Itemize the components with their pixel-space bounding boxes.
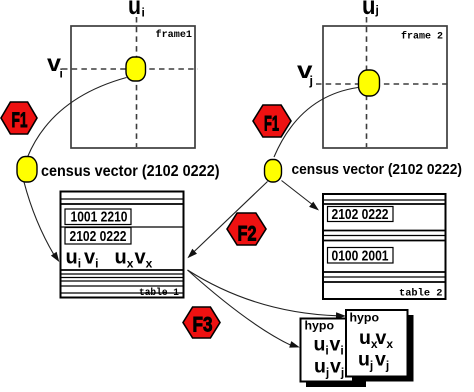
table 2 row line y=282 <box>324 281 446 283</box>
table 2 row line y=272 <box>324 271 446 273</box>
hexagon F3 <box>183 307 220 338</box>
svg-text:frame 2: frame 2 <box>401 31 443 43</box>
svg-text:u: u <box>128 0 141 20</box>
table 1 row line y=286 <box>61 285 183 287</box>
hypothesis box right <box>346 310 408 377</box>
hypothesis box right shadow <box>352 315 414 382</box>
hexagon F1 right <box>253 105 291 137</box>
curve frame2 pixel to census vector (F1 map) <box>274 88 358 158</box>
svg-text:uivi: uivi <box>314 334 344 358</box>
yellow pixel blob frame 1 <box>126 57 146 81</box>
table 2 row line y=204 <box>324 203 446 205</box>
table 2 row line y=200 <box>324 199 446 201</box>
svg-text:hypo: hypo <box>350 311 380 325</box>
frame 2 horizontal dashed line <box>316 83 450 85</box>
svg-text:u: u <box>362 0 376 20</box>
table 2 row line y=235.5 <box>324 235 446 237</box>
arrow census vector left to table 1 <box>24 182 57 259</box>
svg-text:1001 2210: 1001 2210 <box>71 210 128 226</box>
svg-text:ujvj: ujvj <box>314 356 344 380</box>
table 1 row line y=293 <box>61 292 183 294</box>
curve table 1 to hypothesis box right (F3) <box>188 270 339 316</box>
svg-text:F1: F1 <box>264 113 279 136</box>
table 2 box <box>323 194 446 299</box>
table 1 row line y=270 <box>61 269 183 271</box>
svg-text:census vector (2102 0222): census vector (2102 0222) <box>292 161 463 178</box>
svg-text:i: i <box>142 6 145 20</box>
curve table 1 to hypothesis box left (F3) <box>188 270 293 346</box>
table 1 entry box 2102 0222 <box>65 228 131 245</box>
svg-text:2102 0222: 2102 0222 <box>70 229 127 245</box>
frame 2 vertical dashed line <box>366 17 368 147</box>
table 2 entry box 0100 2001 <box>328 248 394 264</box>
svg-text:frame1: frame1 <box>156 29 193 41</box>
arrow census vector right to table 2 <box>282 181 316 208</box>
arrow census vector right to table 1 (F2 map) <box>191 182 268 256</box>
svg-text:F1: F1 <box>12 109 28 132</box>
svg-text:2102 0222: 2102 0222 <box>332 207 389 223</box>
table 2 row line y=240.5 <box>324 240 446 242</box>
table 1 row line y=204 <box>61 203 183 205</box>
curve frame1 pixel to census vector (F1 map) <box>28 78 127 158</box>
svg-text:i: i <box>60 67 63 81</box>
table 2 row line y=277 <box>324 276 446 278</box>
svg-text:hypo: hypo <box>305 319 335 333</box>
svg-text:0100 2001: 0100 2001 <box>332 249 389 265</box>
hypothesis box left shadow <box>306 324 366 387</box>
yellow census blob left <box>17 157 37 183</box>
svg-text:F2: F2 <box>238 223 257 246</box>
svg-text:census vector (2102 0222): census vector (2102 0222) <box>41 163 220 180</box>
table 2 entry box 2102 0222 <box>328 207 394 222</box>
table 1 box <box>61 192 184 298</box>
yellow census blob right <box>265 160 282 183</box>
svg-text:j: j <box>375 3 379 17</box>
svg-text:F3: F3 <box>193 314 213 337</box>
table 1 row line y=199 <box>61 198 183 200</box>
frame 1 vertical dashed line <box>136 17 138 147</box>
frame 2 rectangle <box>323 26 447 148</box>
table 1 row line y=274 <box>61 273 183 275</box>
table 1 row line y=281 <box>61 280 183 282</box>
hypothesis box left <box>301 319 361 382</box>
svg-text:table 1: table 1 <box>139 287 179 299</box>
table 1 row line y=227 <box>61 226 183 228</box>
yellow pixel blob frame 2 <box>359 70 380 96</box>
svg-text:table 2: table 2 <box>399 288 443 300</box>
table 2 row line y=230.5 <box>324 230 446 232</box>
table 1 row line y=277.5 <box>61 277 183 279</box>
frame 1 horizontal dashed line <box>62 68 198 70</box>
hexagon F1 left <box>1 102 37 134</box>
frame 1 rectangle <box>71 26 195 148</box>
hexagon F2 <box>227 213 266 245</box>
svg-text:j: j <box>309 74 313 88</box>
table 1 entry box 1001 2210 <box>65 209 131 225</box>
